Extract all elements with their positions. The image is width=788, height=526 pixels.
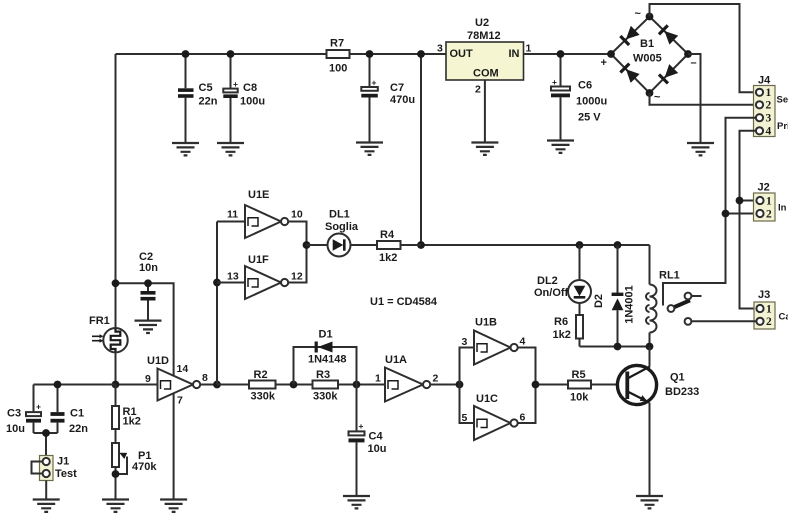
svg-text:2: 2 [766,100,772,112]
svg-text:J2: J2 [758,182,770,194]
svg-text:D2: D2 [593,294,605,308]
svg-text:Q1: Q1 [670,372,685,384]
svg-text:100u: 100u [240,96,265,108]
svg-text:+: + [552,77,557,87]
node left rail C2 [112,279,120,287]
ground Q1 [636,496,663,508]
svg-text:10u: 10u [368,443,387,455]
svg-text:1k2: 1k2 [553,329,571,341]
voltage regulator U2 [437,17,532,96]
svg-text:1: 1 [526,43,532,55]
svg-text:1N4148: 1N4148 [308,354,347,366]
node R3 C4 [353,381,361,389]
svg-text:1: 1 [766,195,772,207]
inverter U1C [460,385,536,441]
svg-text:U2: U2 [475,17,489,29]
relay RL1 coil [646,245,680,347]
ground C5 [172,143,199,155]
ground J1 [33,500,60,512]
resistor R4 [377,229,421,264]
svg-text:J3: J3 [758,289,770,301]
svg-text:RL1: RL1 [659,270,680,282]
svg-text:8: 8 [202,372,208,384]
resistor R7 [327,37,350,74]
svg-text:OUT: OUT [450,48,474,60]
ground U1D pin 7 [160,500,187,512]
svg-text:J1: J1 [57,455,69,467]
inverter U1E [217,189,307,245]
node top rail / vertical [417,50,425,58]
svg-text:C5: C5 [199,82,213,94]
svg-text:14: 14 [177,363,189,375]
svg-text:R5: R5 [572,369,586,381]
svg-text:4: 4 [520,336,526,348]
svg-text:3: 3 [462,336,468,348]
node bridge top [646,13,654,21]
svg-text:COM: COM [473,68,499,80]
wire J4 pin 4 to J2 pin 1 and J3 pin 1 [740,131,757,309]
svg-text:FR1: FR1 [89,315,110,327]
svg-text:U1A: U1A [385,354,407,366]
photoresistor FR1 [89,315,128,353]
capacitor C4 [349,385,387,497]
inverter U1A [375,354,460,401]
bridge rectifier B1 [601,8,697,104]
svg-text:W005: W005 [633,53,662,65]
svg-text:C1: C1 [70,407,84,419]
wire from top rail down to threshold row [420,54,422,245]
svg-text:Sec: Sec [777,95,788,106]
ground C6 [547,141,574,153]
wire U2 pin1 to bridge [524,53,612,55]
svg-text:1k2: 1k2 [379,252,397,264]
LED DL2 [534,245,591,315]
svg-text:13: 13 [227,271,239,283]
svg-text:DL2: DL2 [537,275,558,287]
svg-text:25 V: 25 V [578,111,601,123]
svg-text:+: + [233,79,238,89]
diode B1 top-right [658,24,678,44]
capacitor C5 [178,54,218,143]
svg-text:C6: C6 [578,80,592,92]
svg-text:On/Off: On/Off [534,287,569,299]
node C3 C1 join [42,429,50,437]
wire relay branch bottom rail [580,346,650,348]
wire C2 node row [116,283,174,375]
capacitor C3 [6,385,41,436]
node J2 pin 1 [736,197,744,205]
node collector [646,343,654,351]
svg-text:12: 12 [291,271,303,283]
resistor R1 [112,385,141,444]
svg-text:~: ~ [654,92,661,104]
svg-text:330k: 330k [251,391,276,403]
svg-text:470u: 470u [390,94,415,106]
svg-text:1: 1 [766,87,772,99]
wire U2 COM pin 2 [484,80,486,143]
connector J3 [754,289,788,329]
svg-text:U1C: U1C [476,393,498,405]
ground R1 P1 [102,500,129,512]
ground C8 [217,143,244,155]
node R2 R3 [290,381,298,389]
svg-text:+: + [601,57,607,69]
svg-text:In: In [778,202,787,213]
node C7 top [366,50,374,58]
wire J1 to ground [45,481,47,500]
node U1E U1F output [303,241,311,249]
wire J3 pin 2 to relay contact [691,320,757,322]
svg-text:4: 4 [766,126,772,138]
svg-text:B1: B1 [640,38,654,50]
inverter U1D [116,355,218,499]
svg-text:U1 = CD4584: U1 = CD4584 [370,296,438,308]
svg-text:U1B: U1B [475,316,497,328]
svg-text:1k2: 1k2 [123,416,141,428]
svg-text:5: 5 [462,412,468,424]
diode D1 [294,329,357,385]
svg-text:3: 3 [437,43,443,55]
wire bridge minus to ground [688,54,701,143]
ground C7 [356,143,383,155]
node C6 top [557,50,565,58]
node U1D output [213,381,221,389]
ground C2 [135,321,162,333]
svg-text:1000u: 1000u [576,96,607,108]
svg-text:22n: 22n [69,423,88,435]
svg-text:U1F: U1F [248,254,269,266]
svg-text:1: 1 [766,303,772,315]
svg-text:C3: C3 [7,407,21,419]
node C1 top [54,381,62,389]
node bridge bottom [646,89,654,97]
svg-text:J4: J4 [758,75,771,87]
svg-text:R7: R7 [330,37,344,49]
svg-text:U1E: U1E [248,189,269,201]
connector J4 [754,75,788,138]
node U1F input [213,279,221,287]
node U1B U1C output [532,381,540,389]
node C5 top [182,50,190,58]
wire J4 pin 3 to relay common [663,118,757,306]
LED DL1 [307,209,378,257]
wire threshold row to relay branch rail [421,244,650,246]
svg-text:2: 2 [433,373,439,385]
svg-text:C7: C7 [390,82,404,94]
svg-text:R6: R6 [554,316,568,328]
node R4 output [417,241,425,249]
wire bridge bottom to J4 pin 2 [650,93,757,105]
svg-text:10k: 10k [570,392,589,404]
ground U2 [471,143,498,155]
svg-text:D1: D1 [319,329,333,341]
node J2 pin 2 [722,210,730,218]
svg-text:C8: C8 [243,82,257,94]
connector J2 [754,182,787,221]
relay RL1 switch [668,293,702,325]
svg-text:U1D: U1D [147,355,169,367]
svg-text:10n: 10n [139,262,158,274]
resistor R6 [553,315,584,347]
svg-text:C4: C4 [369,430,384,442]
wire C3 C1 bottom join [34,433,58,456]
svg-text:11: 11 [227,209,238,221]
node U1A output [456,381,464,389]
inverter U1B [460,316,536,384]
node U1D input [112,381,120,389]
svg-text:+: + [372,78,377,88]
svg-text:IN: IN [509,48,520,60]
wire J2 pin 1 [740,200,757,202]
svg-text:Pri: Pri [777,121,788,132]
svg-text:10u: 10u [6,423,25,435]
svg-text:2: 2 [475,84,481,96]
svg-text:BD233: BD233 [665,386,699,398]
ground bridge minus [687,143,714,155]
svg-text:1N4001: 1N4001 [624,285,636,324]
node P1 wiper [112,470,120,478]
node bridge right [684,50,692,58]
svg-text:1: 1 [375,373,381,385]
wire top supply rail [116,53,447,55]
svg-text:10: 10 [291,209,303,221]
svg-text:9: 9 [145,373,151,385]
capacitor C8 [223,54,265,143]
trimmer P1 [112,443,157,500]
svg-text:DL1: DL1 [329,209,350,221]
inverter U1F [217,245,307,299]
diode D2 [593,245,636,347]
svg-text:–: – [691,57,697,69]
node C8 top [227,50,235,58]
node D2 top [614,241,622,249]
svg-text:7: 7 [177,394,183,406]
svg-text:3: 3 [766,113,772,125]
capacitor C1 [51,385,89,436]
svg-text:100: 100 [329,63,347,75]
svg-text:470k: 470k [132,461,157,473]
connector J1 [32,455,78,480]
svg-text:+: + [36,402,41,412]
svg-text:C2: C2 [139,251,153,263]
diode B1 bottom-left [619,63,639,83]
capacitor C6 [551,54,607,141]
node D2 bottom [614,343,622,351]
capacitor C7 [361,54,415,143]
wire left supply rail [115,54,117,385]
resistor R2 [217,369,313,403]
svg-text:R4: R4 [380,229,395,241]
svg-text:2: 2 [766,316,772,328]
svg-text:2: 2 [766,208,772,220]
transistor Q1 [617,347,699,497]
wire J2 pin 2 [726,213,757,215]
svg-text:Soglia: Soglia [325,221,359,233]
diode B1 bottom-right [658,64,678,84]
diode B1 top-left [619,26,639,46]
svg-text:R2: R2 [254,369,268,381]
wire U1E U1F input bus [216,222,218,385]
node bridge left [607,50,615,58]
capacitor C2 [139,251,158,321]
svg-text:R3: R3 [316,369,330,381]
svg-text:6: 6 [520,412,526,424]
svg-text:78M12: 78M12 [467,30,501,42]
svg-text:Test: Test [55,468,77,480]
svg-text:22n: 22n [199,96,218,108]
wire bridge top to J4 pin 1 [650,4,757,92]
svg-text:Car: Car [779,311,788,322]
svg-text:+: + [359,421,364,431]
node DL2 top [576,241,584,249]
svg-text:~: ~ [635,8,642,20]
wire main signal row left [34,384,116,386]
node C2 [144,279,152,287]
svg-text:330k: 330k [313,391,338,403]
resistor R3 [313,369,386,403]
ground C4 [343,496,370,508]
resistor R5 [536,369,626,404]
